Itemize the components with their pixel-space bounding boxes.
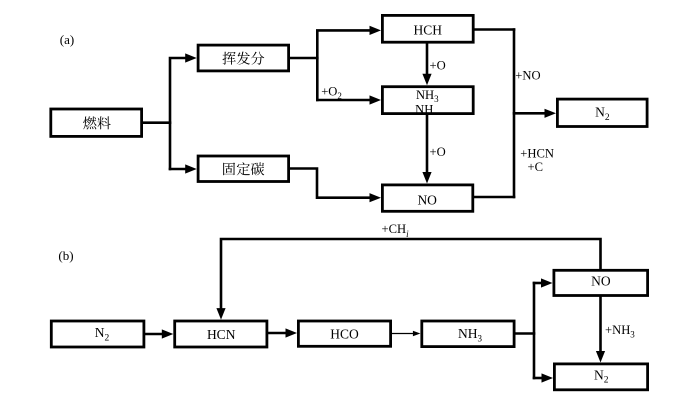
wire right vertical HCH-NO — [513, 30, 516, 198]
box HCH — [382, 15, 473, 42]
wire NH down to NO — [426, 115, 429, 172]
svg-text:HCN: HCN — [207, 327, 236, 342]
wire 燃料 to branch point — [143, 121, 170, 124]
small arrowhead into NH3 (b) — [413, 331, 421, 337]
svg-text:NH: NH — [415, 102, 433, 116]
arrowhead down into HCN top — [216, 308, 225, 320]
wire 挥发分 to vertical — [290, 57, 317, 60]
arrowhead into NO (b) — [541, 278, 553, 287]
svg-text:NO: NO — [591, 273, 611, 288]
box HCN — [175, 321, 267, 347]
box NH3 (b) — [422, 321, 514, 347]
svg-text:+C: +C — [528, 160, 544, 174]
arrowhead down into NH3 box — [422, 74, 431, 86]
wire +O2 into NH3 row — [317, 99, 369, 102]
wire HCH right to vertical — [475, 28, 514, 31]
box N2 (a) — [557, 99, 647, 126]
svg-text:+NO: +NO — [515, 68, 540, 82]
svg-text:+O: +O — [430, 58, 446, 72]
wire 固定碳 elbow to NO — [290, 169, 369, 198]
wire NO right to vertical — [474, 196, 514, 199]
box N2 (b right) — [554, 364, 647, 390]
box N2 (b left) — [51, 321, 144, 347]
arrowhead into 挥发分 — [185, 53, 197, 62]
svg-text:HCO: HCO — [330, 326, 359, 341]
wire right branch vertical — [533, 283, 536, 378]
wire branch down to 固定碳 level — [170, 168, 185, 171]
box HCO — [298, 321, 390, 346]
box 挥发分 (volatiles) — [198, 45, 289, 71]
wire NO down to N2 — [599, 297, 602, 351]
box NO (b) — [554, 270, 648, 295]
box 燃料 (fuel) — [51, 109, 142, 136]
arrowhead down into N2 (b right) — [596, 351, 605, 363]
arrowhead into HCO — [286, 328, 298, 337]
wire N2 to HCN — [145, 333, 162, 336]
arrowhead into N2 (a) — [545, 109, 557, 118]
arrowhead into HCN — [162, 329, 174, 338]
wire branch to NO (b) — [534, 282, 541, 285]
arrowhead into NH3 box — [370, 95, 382, 104]
svg-text:+CHi: +CHi — [382, 222, 410, 239]
box NH3/NH — [382, 87, 473, 117]
svg-text:HCH: HCH — [414, 22, 443, 37]
svg-text:+HCN: +HCN — [520, 147, 554, 161]
wire NH3 to right branch — [516, 332, 535, 335]
arrowhead into NO (a) — [370, 193, 382, 202]
svg-text:+O: +O — [430, 145, 446, 159]
box NO (a) — [382, 185, 472, 211]
svg-text:(a): (a) — [60, 32, 74, 47]
svg-text:(b): (b) — [58, 248, 73, 263]
wire HCH down to NH3 — [426, 44, 429, 74]
box 固定碳 (fixed carbon) — [198, 156, 289, 182]
svg-text:NO: NO — [417, 192, 437, 207]
wire HCN to HCO — [268, 332, 285, 335]
wire branch up to 挥发分 level — [170, 58, 185, 169]
wire CHi feedback loop NO to HCN — [221, 239, 601, 308]
arrowhead into 固定碳 — [185, 164, 197, 173]
wire vertical up to HCH row — [317, 30, 369, 100]
wire branch to N2 (b right) — [534, 377, 542, 380]
svg-text:+O2: +O2 — [321, 84, 342, 101]
arrowhead down into NO (a) — [422, 172, 431, 184]
thin wire HCO to NH3 — [392, 333, 414, 335]
arrowhead into HCH — [370, 26, 382, 35]
wire into N2 (a) — [514, 112, 544, 115]
svg-text:+NH3: +NH3 — [605, 323, 635, 339]
arrowhead into N2 (b right) — [542, 373, 554, 382]
